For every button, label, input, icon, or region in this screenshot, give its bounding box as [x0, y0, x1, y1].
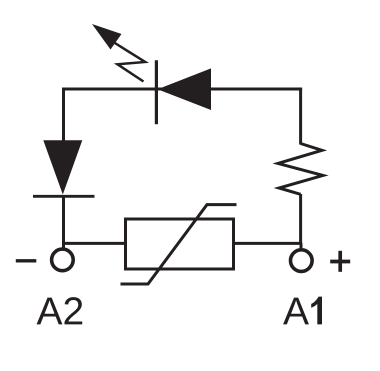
LED cathode bar: [155, 60, 158, 124]
wire: A1 terminal stub: [300, 243, 303, 249]
minus sign (A2 polarity): [16, 259, 37, 262]
LED light-emission arrowhead: [92, 24, 122, 50]
wire: left vertical (top corner to diode): [62, 88, 65, 143]
wire: right vertical (resistor to A1 junction): [299, 194, 302, 243]
LED triangle (anode, pointing left): [158, 68, 212, 110]
wire: top horizontal: [62, 88, 302, 91]
label A2: [37, 297, 83, 324]
wire: A2 terminal stub: [62, 243, 65, 248]
wire: bottom horizontal left (A2 junction to varistor): [62, 242, 127, 245]
wire: bottom horizontal right (varistor to A1 junction): [233, 242, 302, 245]
terminal A1 circle: [291, 250, 313, 272]
diode D1 triangle (pointing down): [43, 140, 82, 194]
varistor diagonal stroke: [121, 205, 237, 284]
wire: right vertical (top corner to resistor): [299, 88, 302, 145]
terminal A2 circle: [52, 249, 74, 271]
wire: left vertical (diode bar to A2 junction): [62, 196, 65, 243]
diode D1 cathode bar: [33, 195, 95, 198]
LED light-emission arrow shaft (zigzag): [113, 42, 146, 82]
varistor body rectangle: [126, 219, 234, 269]
plus sign (A1 polarity): [330, 251, 350, 272]
label A1: [283, 297, 322, 325]
resistor R1 zigzag: [278, 144, 323, 195]
